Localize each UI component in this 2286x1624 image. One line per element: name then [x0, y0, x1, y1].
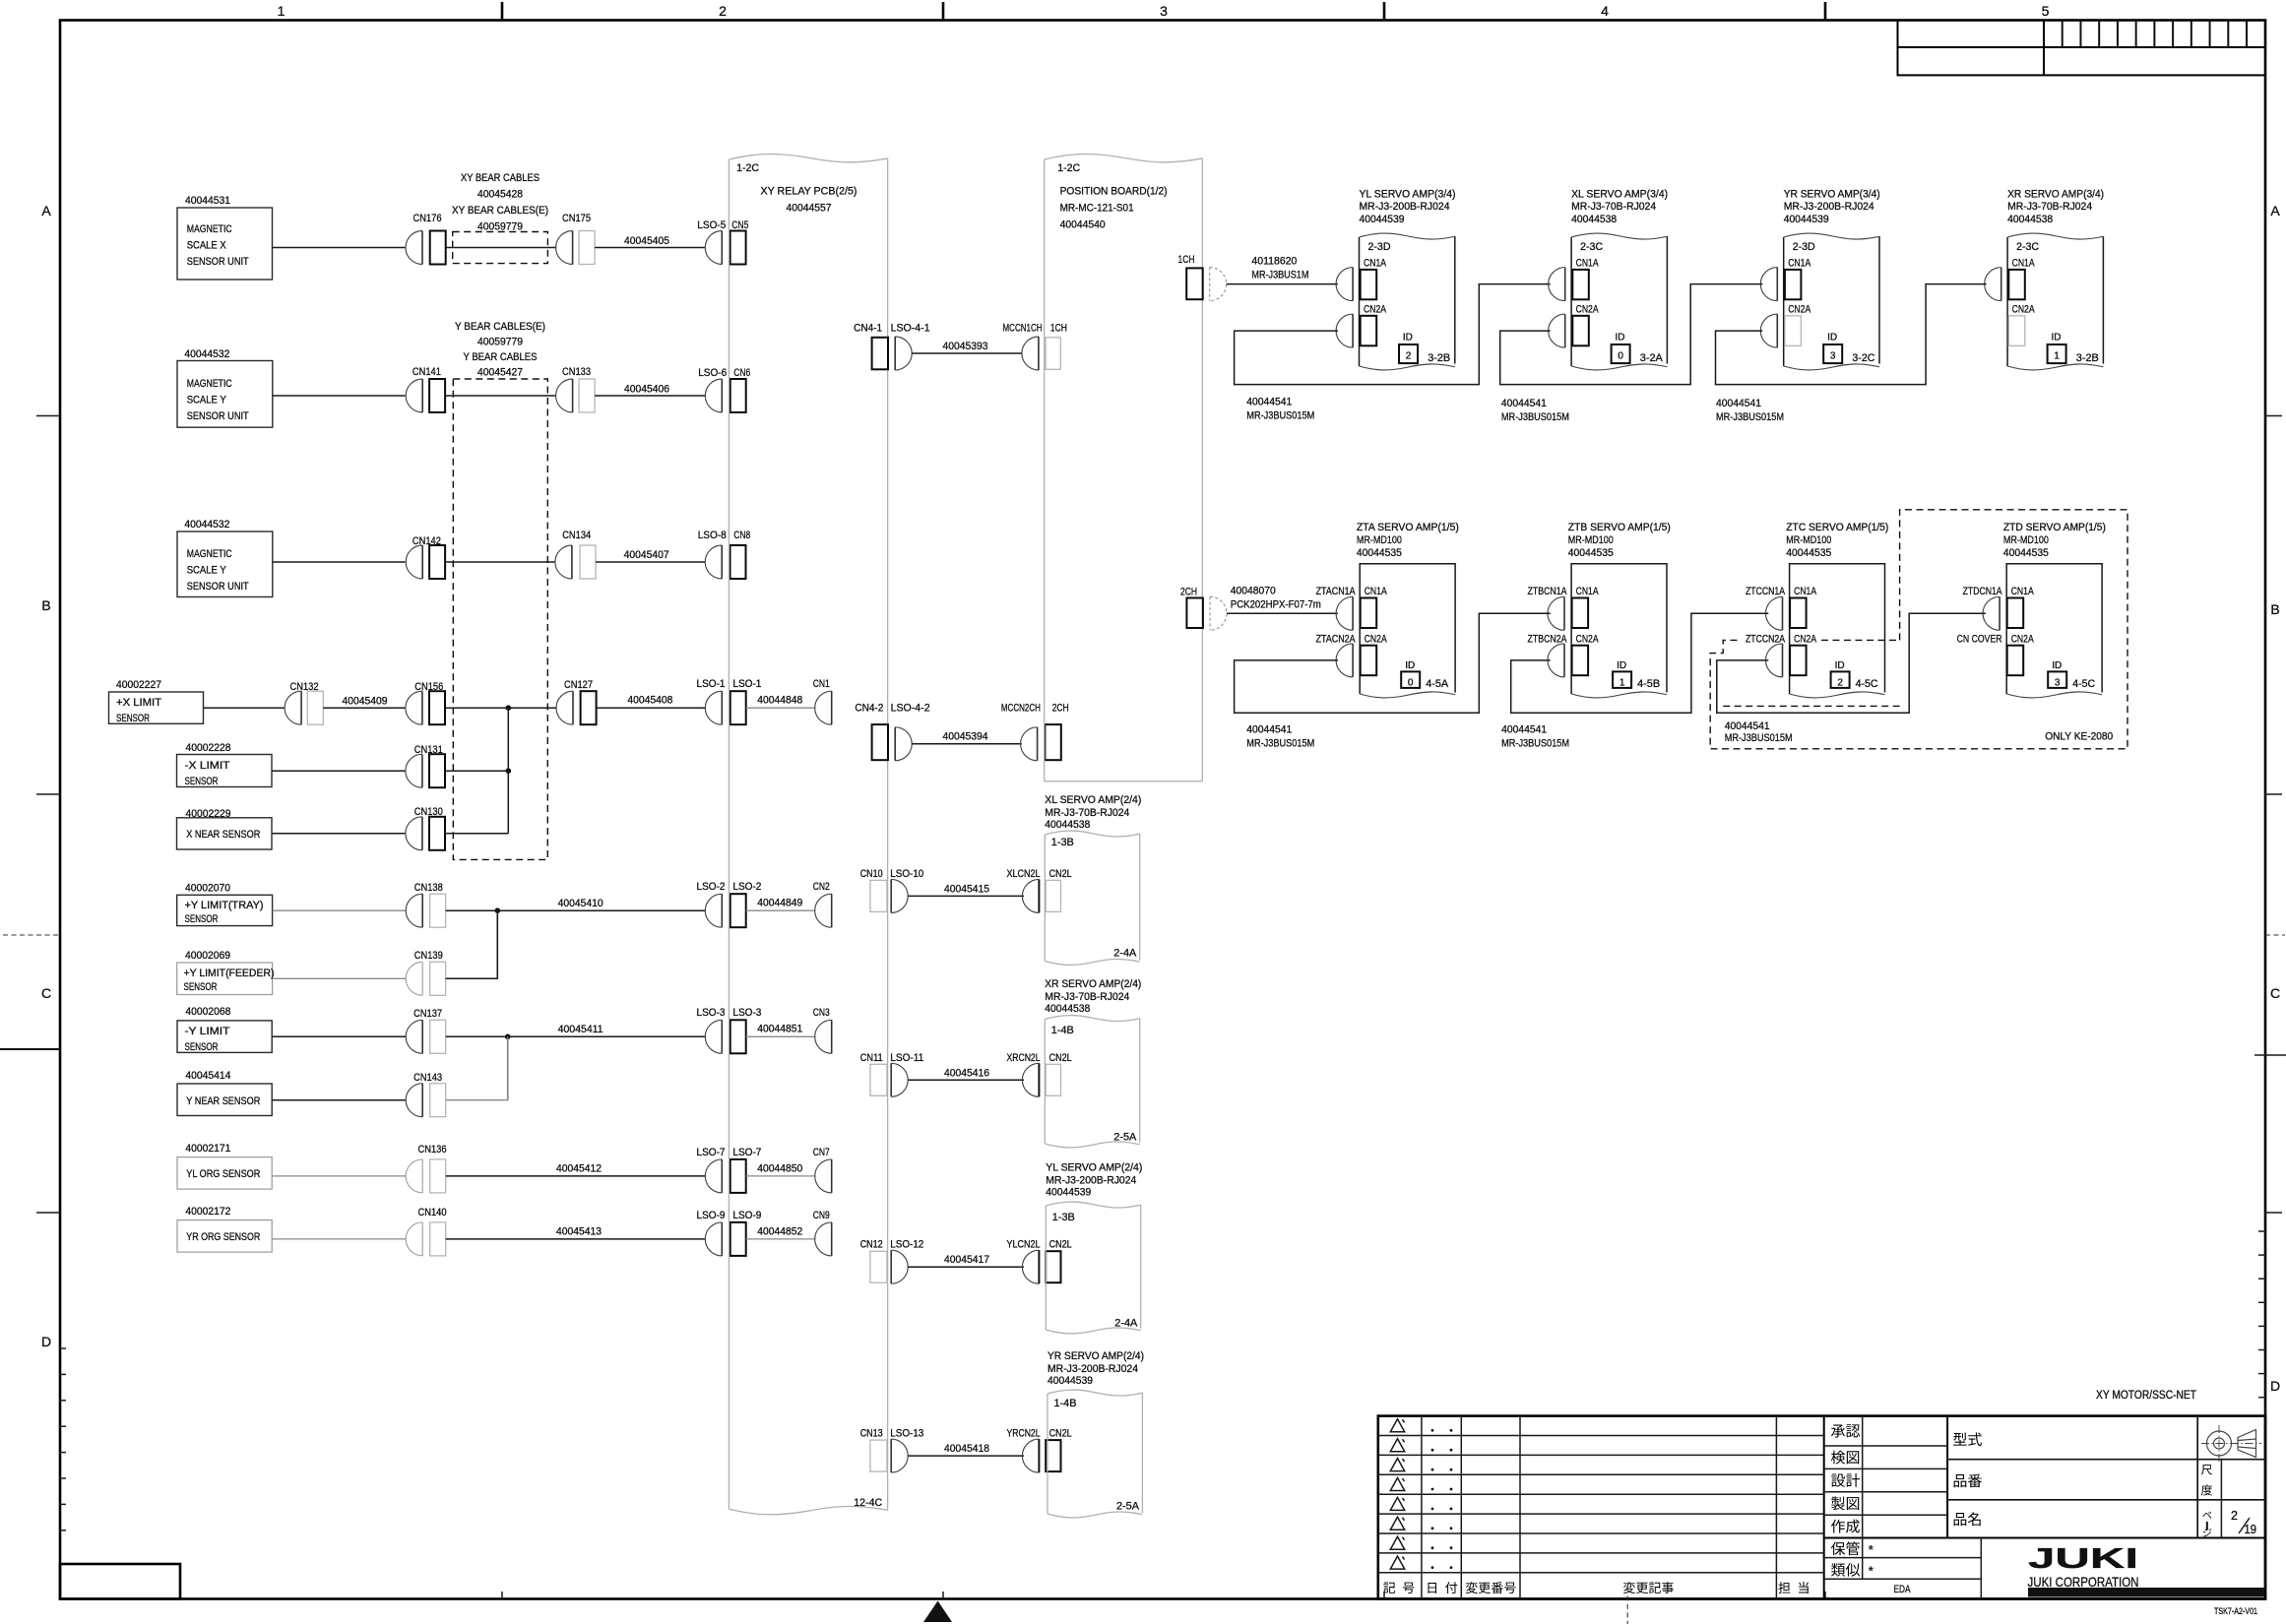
wire link YR-XR 40044541 MR-J3BUS015M [1716, 284, 1987, 385]
svg-text:LSO-2: LSO-2 [697, 881, 726, 893]
wire 40045408 [597, 707, 706, 709]
wire 40118620 MR-J3BUS1M [1227, 283, 1338, 285]
svg-text:CN9: CN9 [813, 1210, 830, 1221]
svg-text:LSO-9: LSO-9 [732, 1210, 761, 1221]
svg-text:40044539: 40044539 [1048, 1375, 1093, 1387]
wire up to junction [446, 1036, 508, 1099]
svg-text:40044852: 40044852 [757, 1226, 802, 1238]
wire to +Y FEEDER [496, 910, 498, 978]
revision triangles [1390, 1419, 1404, 1432]
svg-text:CN4-1: CN4-1 [854, 323, 882, 335]
svg-text:2-4A: 2-4A [1113, 948, 1137, 960]
model section [1946, 1416, 1948, 1538]
wire link XL-YR 40044541 MR-J3BUS015M [1500, 284, 1763, 385]
wire [272, 1035, 406, 1037]
node junction [506, 768, 512, 774]
svg-text:SENSOR: SENSOR [116, 713, 150, 724]
wire 40048070 PCK202HPX-F07-7m [1227, 612, 1338, 614]
svg-text:3: 3 [1830, 351, 1836, 362]
svg-text:MR-J3BUS015M: MR-J3BUS015M [1246, 410, 1314, 422]
svg-text:SENSOR UNIT: SENSOR UNIT [187, 581, 249, 593]
svg-text:1: 1 [1619, 677, 1625, 688]
svg-text:CN2A: CN2A [2011, 634, 2034, 646]
svg-text:40045405: 40045405 [624, 235, 669, 247]
svg-text:2-5A: 2-5A [1113, 1132, 1137, 1144]
svg-text:4-5C: 4-5C [2072, 678, 2095, 690]
svg-text:ID: ID [1405, 660, 1415, 671]
cable 40044850 to CN7 [746, 1175, 816, 1177]
svg-text:40045394: 40045394 [943, 731, 988, 743]
zone ticks top [501, 2, 504, 21]
svg-text:2: 2 [1837, 677, 1843, 688]
svg-text:40044535: 40044535 [1786, 547, 1831, 559]
cable 40044852 to CN9 [746, 1238, 816, 1240]
svg-text:+X LIMIT: +X LIMIT [116, 697, 161, 709]
wire [272, 770, 406, 772]
wire 40045409 [323, 707, 406, 709]
svg-text:40044539: 40044539 [1046, 1187, 1091, 1199]
svg-text:LSO-9: LSO-9 [697, 1210, 726, 1221]
svg-text:CN2A: CN2A [2012, 304, 2035, 316]
svg-text:MR-J3-200B-RJ024: MR-J3-200B-RJ024 [1784, 201, 1874, 213]
fold mark line right [2254, 1054, 2286, 1056]
svg-text:*: * [1869, 1564, 1873, 1579]
cable 40044851 to CN3 [746, 1035, 816, 1037]
wire [445, 395, 555, 397]
fold triangle bottom [923, 1601, 952, 1623]
svg-text:MR-MD100: MR-MD100 [2003, 534, 2049, 546]
svg-text:CN1A: CN1A [2011, 586, 2034, 597]
wire to -X and X NEAR [507, 708, 509, 834]
svg-text:CN7: CN7 [813, 1147, 830, 1158]
svg-text:CN2A: CN2A [1794, 634, 1816, 646]
svg-text:MR-MC-121-S01: MR-MC-121-S01 [1060, 203, 1134, 215]
svg-text:40044535: 40044535 [1357, 547, 1402, 559]
wire 40045393 [912, 352, 1022, 354]
svg-text:40044541: 40044541 [1725, 720, 1770, 732]
svg-text:MR-J3-70B-RJ024: MR-J3-70B-RJ024 [1045, 991, 1129, 1003]
svg-text:ID: ID [2052, 660, 2062, 671]
svg-text:XY BEAR CABLES: XY BEAR CABLES [461, 172, 540, 184]
svg-text:40045406: 40045406 [624, 384, 669, 396]
svg-text:MR-MD100: MR-MD100 [1786, 534, 1831, 546]
svg-text:CN1A: CN1A [1794, 586, 1816, 597]
svg-text:40044541: 40044541 [1246, 397, 1292, 408]
svg-text:40045407: 40045407 [624, 549, 669, 561]
wire up to junction [446, 910, 498, 978]
svg-text:SENSOR: SENSOR [185, 1041, 219, 1053]
svg-text:40002228: 40002228 [186, 742, 231, 754]
svg-text:XY RELAY PCB(2/5): XY RELAY PCB(2/5) [761, 186, 857, 198]
svg-text:CN134: CN134 [562, 530, 591, 541]
svg-text:PCK202HPX-F07-7m: PCK202HPX-F07-7m [1231, 599, 1321, 611]
svg-text:MR-J3-200B-RJ024: MR-J3-200B-RJ024 [1048, 1363, 1138, 1375]
revision table grid [1378, 1435, 1824, 1437]
svg-text:40118620: 40118620 [1251, 256, 1297, 268]
wire 40045394 [912, 743, 1022, 745]
svg-text:40044538: 40044538 [1045, 819, 1090, 831]
svg-text:XY BEAR CABLES(E): XY BEAR CABLES(E) [452, 205, 548, 217]
svg-text:YL SERVO AMP(3/4): YL SERVO AMP(3/4) [1360, 189, 1456, 201]
svg-text:CN1A: CN1A [2012, 258, 2035, 270]
wire 40045407 [596, 561, 705, 563]
svg-text:40002172: 40002172 [185, 1206, 230, 1218]
svg-text:ID: ID [1403, 333, 1413, 344]
svg-text:19: 19 [2245, 1523, 2257, 1536]
wire [204, 707, 286, 709]
svg-text:ZTBCN1A: ZTBCN1A [1528, 586, 1567, 597]
svg-text:0: 0 [1408, 677, 1414, 688]
XY RELAY PCB outline [728, 159, 730, 1509]
svg-text:1CH: 1CH [1178, 254, 1195, 266]
svg-text:2: 2 [2231, 1509, 2238, 1523]
svg-text:5: 5 [2042, 3, 2050, 19]
svg-text:40002069: 40002069 [185, 950, 230, 962]
svg-text:X NEAR SENSOR: X NEAR SENSOR [186, 829, 260, 841]
svg-text:40044539: 40044539 [1360, 214, 1405, 225]
svg-text:40044538: 40044538 [2007, 214, 2053, 225]
svg-text:ZTCCN1A: ZTCCN1A [1746, 586, 1785, 597]
ruler ticks right [2258, 1230, 2265, 1232]
svg-text:SENSOR UNIT: SENSOR UNIT [187, 410, 249, 422]
svg-text:LSO-4-1: LSO-4-1 [891, 323, 930, 335]
svg-text:C: C [41, 985, 51, 1001]
svg-text:TSK7-A2-V01: TSK7-A2-V01 [2214, 1606, 2257, 1616]
node junction [506, 705, 512, 711]
node junction [495, 907, 501, 913]
svg-text:SENSOR: SENSOR [185, 913, 219, 925]
svg-text:ONLY KE-2080: ONLY KE-2080 [2045, 731, 2113, 743]
svg-text:1-3B: 1-3B [1051, 837, 1074, 848]
wire 40045415 [908, 895, 1024, 897]
svg-text:1-2C: 1-2C [736, 162, 759, 174]
svg-text:MR-J3-200B-RJ024: MR-J3-200B-RJ024 [1046, 1175, 1136, 1187]
svg-text:A: A [2270, 203, 2280, 219]
wire link ZTA-ZTB 40044541 MR-J3BUS015M [1235, 613, 1551, 713]
wire [272, 1175, 406, 1177]
svg-text:1-2C: 1-2C [1057, 162, 1080, 174]
wire [273, 561, 406, 563]
svg-text:3-2A: 3-2A [1640, 352, 1664, 364]
svg-text:MR-J3-70B-RJ024: MR-J3-70B-RJ024 [1045, 807, 1129, 819]
svg-text:3-2C: 3-2C [1852, 352, 1874, 364]
svg-text:ZTDCN1A: ZTDCN1A [1963, 586, 2002, 597]
dashed box ONLY KE-2080 [1710, 510, 2127, 749]
svg-text:MR-J3-70B-RJ024: MR-J3-70B-RJ024 [2007, 201, 2092, 213]
svg-text:YLCN2L: YLCN2L [1007, 1239, 1041, 1251]
svg-text:40044535: 40044535 [2003, 547, 2049, 559]
svg-text:2CH: 2CH [1052, 703, 1069, 715]
svg-text:40045417: 40045417 [944, 1254, 989, 1266]
svg-text:CN2L: CN2L [1049, 1428, 1072, 1440]
svg-text:40044851: 40044851 [757, 1024, 802, 1035]
svg-text:XLCN2L: XLCN2L [1007, 868, 1041, 880]
svg-text:Y BEAR CABLES(E): Y BEAR CABLES(E) [455, 321, 545, 333]
svg-text:LSO-12: LSO-12 [890, 1239, 923, 1251]
svg-text:2-3D: 2-3D [1793, 241, 1815, 253]
svg-text:CN127: CN127 [564, 679, 593, 691]
svg-text:CN11: CN11 [860, 1052, 883, 1064]
svg-text:40045427: 40045427 [477, 367, 523, 379]
svg-text:MR-J3BUS1M: MR-J3BUS1M [1251, 270, 1308, 281]
wire [446, 247, 557, 249]
svg-text:YL ORG SENSOR: YL ORG SENSOR [186, 1168, 260, 1180]
svg-text:*: * [1869, 1542, 1873, 1557]
svg-text:XL SERVO AMP(2/4): XL SERVO AMP(2/4) [1045, 794, 1141, 806]
svg-text:MR-J3BUS015M: MR-J3BUS015M [1501, 738, 1569, 750]
svg-text:MR-MD100: MR-MD100 [1357, 534, 1402, 546]
svg-text:SENSOR UNIT: SENSOR UNIT [187, 256, 249, 268]
svg-text:B: B [41, 597, 50, 613]
svg-text:XY MOTOR/SSC-NET: XY MOTOR/SSC-NET [2096, 1390, 2196, 1402]
svg-text:40044538: 40044538 [1571, 214, 1617, 225]
svg-text:SCALE X: SCALE X [187, 240, 226, 252]
svg-text:MR-MD100: MR-MD100 [1568, 534, 1614, 546]
wire 40045405 [595, 247, 705, 249]
svg-text:XL SERVO AMP(3/4): XL SERVO AMP(3/4) [1571, 189, 1668, 201]
svg-text:CN12: CN12 [860, 1239, 883, 1251]
svg-text:40045414: 40045414 [185, 1070, 230, 1082]
svg-text:JUKI: JUKI [2028, 1543, 2138, 1575]
svg-text:LSO-5: LSO-5 [697, 219, 726, 231]
svg-text:40048070: 40048070 [1231, 586, 1276, 597]
top right reference table [1898, 21, 2266, 76]
wire 40045412 [446, 1175, 706, 1177]
node junction [505, 1034, 511, 1040]
fold dashed line bottom [1626, 1595, 1628, 1624]
svg-text:YR SERVO AMP(2/4): YR SERVO AMP(2/4) [1048, 1350, 1144, 1362]
svg-text:MCCN2CH: MCCN2CH [1001, 703, 1041, 715]
svg-text:2: 2 [1406, 351, 1412, 362]
wire 40045406 [595, 395, 705, 397]
svg-text:LSO-7: LSO-7 [697, 1147, 726, 1158]
svg-text:LSO-3: LSO-3 [732, 1007, 761, 1019]
projection symbol box [2196, 1416, 2198, 1538]
wire [445, 707, 556, 709]
svg-text:MR-J3BUS015M: MR-J3BUS015M [1501, 411, 1569, 423]
svg-text:40044541: 40044541 [1716, 398, 1761, 409]
svg-text:ID: ID [2052, 333, 2062, 344]
svg-text:SENSOR: SENSOR [184, 981, 218, 993]
svg-text:3-2B: 3-2B [2076, 352, 2099, 364]
svg-text:4-5C: 4-5C [1856, 678, 1878, 690]
svg-text:ID: ID [1827, 333, 1837, 344]
svg-text:40045412: 40045412 [556, 1163, 602, 1175]
svg-text:CN137: CN137 [413, 1008, 442, 1020]
svg-text:CN1A: CN1A [1364, 258, 1386, 270]
svg-text:CN2L: CN2L [1049, 1052, 1072, 1064]
wire [445, 770, 508, 772]
svg-text:2-4A: 2-4A [1114, 1318, 1138, 1330]
svg-text:CN141: CN141 [413, 366, 441, 378]
svg-text:LSO-10: LSO-10 [890, 868, 923, 880]
svg-text:ZTD SERVO AMP(1/5): ZTD SERVO AMP(1/5) [2003, 522, 2106, 533]
svg-text:40045409: 40045409 [343, 696, 388, 708]
svg-text:Y NEAR SENSOR: Y NEAR SENSOR [186, 1095, 260, 1107]
svg-text:40044849: 40044849 [757, 898, 802, 909]
wire [273, 909, 407, 911]
svg-text:Y BEAR CABLES: Y BEAR CABLES [464, 351, 538, 363]
svg-text:3: 3 [2055, 677, 2061, 688]
svg-text:YL SERVO AMP(2/4): YL SERVO AMP(2/4) [1046, 1162, 1142, 1174]
svg-text:40044539: 40044539 [1784, 214, 1829, 225]
svg-text:40002227: 40002227 [116, 679, 161, 691]
svg-text:CN139: CN139 [414, 950, 443, 962]
wire 40045417 [908, 1266, 1024, 1268]
svg-text:MAGNETIC: MAGNETIC [187, 378, 232, 390]
label hokan [1831, 1541, 1845, 1555]
wire 40045416 [908, 1079, 1024, 1081]
svg-text:CN175: CN175 [562, 213, 591, 224]
svg-text:YR ORG SENSOR: YR ORG SENSOR [186, 1231, 260, 1243]
svg-text:40044541: 40044541 [1501, 724, 1547, 736]
svg-text:40059779: 40059779 [477, 221, 523, 233]
svg-text:CN2A: CN2A [1788, 304, 1810, 316]
svg-text:40044538: 40044538 [1045, 1003, 1090, 1015]
svg-text:MR-J3BUS015M: MR-J3BUS015M [1246, 738, 1314, 750]
svg-text:CN2A: CN2A [1576, 634, 1599, 646]
wire to Y NEAR [507, 1036, 509, 1099]
svg-text:JUKI CORPORATION: JUKI CORPORATION [2028, 1574, 2139, 1590]
svg-text:D: D [41, 1334, 51, 1349]
ruler ticks left [60, 1347, 66, 1349]
svg-text:40045413: 40045413 [556, 1226, 602, 1238]
wire [445, 833, 508, 835]
svg-text:4-5B: 4-5B [1637, 678, 1660, 690]
fold mark dashed left [3, 934, 60, 936]
svg-text:-X LIMIT: -X LIMIT [185, 760, 230, 772]
svg-text:CN COVER: CN COVER [1957, 634, 2002, 646]
cable 40044848 to CN1 [746, 707, 816, 709]
svg-text:1-4B: 1-4B [1051, 1025, 1074, 1036]
wire 40045418 [908, 1455, 1024, 1457]
svg-text:LSO-1: LSO-1 [732, 678, 761, 690]
svg-text:40002171: 40002171 [185, 1143, 230, 1155]
svg-text:LSO-3: LSO-3 [697, 1007, 726, 1019]
svg-text:CN1A: CN1A [1788, 258, 1810, 270]
wire [445, 561, 555, 563]
svg-text:XRCN2L: XRCN2L [1007, 1052, 1041, 1064]
svg-text:40044535: 40044535 [1568, 547, 1614, 559]
svg-text:YR SERVO AMP(3/4): YR SERVO AMP(3/4) [1784, 189, 1880, 201]
wire [273, 395, 406, 397]
svg-text:40044540: 40044540 [1060, 219, 1106, 231]
approval column labels [1831, 1424, 1845, 1437]
svg-text:40044541: 40044541 [1501, 398, 1547, 409]
svg-text:CN143: CN143 [413, 1072, 442, 1084]
svg-text:CN138: CN138 [414, 882, 443, 894]
svg-text:CN2L: CN2L [1049, 868, 1072, 880]
svg-text:CN140: CN140 [418, 1207, 447, 1218]
svg-text:4: 4 [1601, 3, 1609, 19]
svg-text:CN136: CN136 [418, 1144, 447, 1156]
svg-text:2-3C: 2-3C [1580, 241, 1603, 253]
svg-text:MR-J3BUS015M: MR-J3BUS015M [1716, 411, 1784, 423]
svg-text:2CH: 2CH [1180, 587, 1197, 598]
svg-text:ZTA SERVO AMP(1/5): ZTA SERVO AMP(1/5) [1357, 522, 1459, 533]
cable 40044849 to CN2 [746, 909, 816, 911]
svg-text:40045416: 40045416 [944, 1067, 989, 1079]
svg-text:B: B [2270, 601, 2279, 617]
svg-text:2-3D: 2-3D [1368, 241, 1391, 253]
svg-text:40045408: 40045408 [627, 695, 672, 707]
title block outer [1378, 1416, 2265, 1599]
svg-text:CN133: CN133 [562, 366, 591, 378]
revision header labels [1383, 1583, 1395, 1593]
corner box bottom left [60, 1564, 180, 1599]
svg-text:40002068: 40002068 [185, 1006, 230, 1018]
svg-text:CN2A: CN2A [1365, 634, 1387, 646]
wire link ZTC-ZTD 40044541 MR-J3BUS015M [1717, 613, 1986, 713]
svg-text:40045411: 40045411 [558, 1024, 603, 1035]
svg-text:40045415: 40045415 [944, 883, 989, 895]
fold mark dashed right [2265, 934, 2285, 936]
svg-text:SCALE Y: SCALE Y [187, 395, 226, 406]
svg-text:40044541: 40044541 [1246, 724, 1292, 736]
dashed box XY BEAR CABLES [453, 232, 548, 264]
svg-text:1: 1 [278, 3, 286, 19]
svg-text:LSO-13: LSO-13 [890, 1428, 923, 1440]
svg-text:1-4B: 1-4B [1054, 1398, 1077, 1409]
svg-text:CN2A: CN2A [1364, 304, 1386, 316]
svg-text:+Y LIMIT(TRAY): +Y LIMIT(TRAY) [185, 900, 264, 911]
svg-text:LSO-1: LSO-1 [697, 678, 726, 690]
page cell [2202, 1512, 2211, 1519]
svg-text:EDA: EDA [1894, 1584, 1911, 1595]
svg-text:LSO-6: LSO-6 [698, 367, 727, 379]
wire [272, 833, 406, 835]
zone ticks bottom [501, 1592, 503, 1599]
svg-text:ID: ID [1616, 333, 1625, 344]
svg-text:CN176: CN176 [413, 213, 442, 224]
svg-text:ZTB SERVO AMP(1/5): ZTB SERVO AMP(1/5) [1568, 522, 1671, 533]
wire 40045413 [446, 1238, 706, 1240]
svg-text:CN3: CN3 [813, 1007, 830, 1019]
zone ticks right border [2265, 415, 2282, 417]
svg-text:+Y LIMIT(FEEDER): +Y LIMIT(FEEDER) [184, 968, 275, 979]
wire [273, 247, 407, 249]
svg-text:40044848: 40044848 [757, 695, 802, 707]
svg-text:MAGNETIC: MAGNETIC [187, 548, 232, 560]
svg-text:XR SERVO AMP(2/4): XR SERVO AMP(2/4) [1045, 978, 1141, 990]
svg-text:A: A [41, 203, 51, 219]
svg-text:CN8: CN8 [733, 530, 750, 541]
wire [272, 1099, 406, 1101]
svg-text:CN1A: CN1A [1576, 258, 1599, 270]
scale cell [2220, 1460, 2222, 1538]
svg-text:1: 1 [2054, 351, 2060, 362]
svg-text:LSO-7: LSO-7 [732, 1147, 761, 1158]
JUKI black bar [2028, 1588, 2264, 1597]
svg-text:ID: ID [1835, 660, 1845, 671]
svg-text:40044531: 40044531 [185, 195, 230, 207]
svg-text:CN6: CN6 [733, 367, 750, 379]
svg-text:CN2L: CN2L [1049, 1239, 1072, 1251]
svg-text:POSITION BOARD(1/2): POSITION BOARD(1/2) [1060, 186, 1168, 198]
svg-text:2: 2 [719, 3, 727, 19]
projection symbol [2207, 1431, 2232, 1456]
svg-text:ZTACN1A: ZTACN1A [1316, 586, 1356, 597]
zone ticks left border [36, 415, 60, 417]
svg-text:CN1A: CN1A [1576, 586, 1599, 597]
svg-text:MR-J3-200B-RJ024: MR-J3-200B-RJ024 [1360, 201, 1450, 213]
wire link YL-XL 40044541 MR-J3BUS015M [1235, 284, 1551, 385]
svg-text:LSO-8: LSO-8 [698, 530, 727, 541]
svg-text:12-4C: 12-4C [854, 1497, 882, 1509]
svg-text:40045393: 40045393 [943, 341, 988, 352]
svg-text:MR-J3BUS015M: MR-J3BUS015M [1725, 732, 1793, 744]
svg-text:C: C [2270, 985, 2280, 1001]
